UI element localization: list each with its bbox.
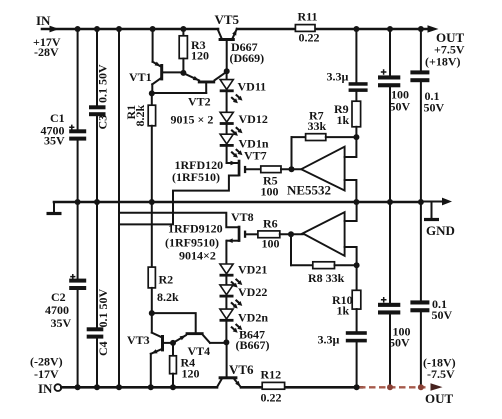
transistor VT2: [152, 72, 227, 127]
svg-text:(D669): (D669): [230, 51, 265, 65]
LED VD11: [220, 71, 266, 103]
svg-text:9014×2: 9014×2: [179, 249, 216, 263]
svg-text:VT7: VT7: [244, 149, 267, 163]
svg-text:C4: C4: [96, 341, 110, 356]
LED VD1n: [220, 125, 269, 158]
LED VD12: [220, 92, 268, 136]
svg-text:VT3: VT3: [127, 333, 150, 347]
svg-text:1k: 1k: [337, 304, 350, 318]
wire MOSFET drain bus (x=119 column): [118, 29, 120, 387]
junction dots top rail: [75, 26, 81, 32]
svg-text:35V: 35V: [44, 134, 65, 148]
wire bottom rail right (red dashed): [359, 386, 428, 388]
svg-text:50V: 50V: [424, 101, 445, 115]
junction dots bottom rail: [75, 384, 81, 390]
svg-text:R2: R2: [159, 273, 174, 287]
transistor VT8 1RFD9120: [119, 210, 258, 264]
transistor VT6 B647: [217, 328, 270, 388]
svg-text:R11: R11: [298, 10, 318, 24]
svg-text:120: 120: [182, 367, 200, 381]
svg-text:(B667): (B667): [236, 338, 270, 352]
svg-text:1RFD9120: 1RFD9120: [168, 222, 223, 236]
junction dots mid rail: [75, 199, 81, 205]
resistor R2 8.2k: [148, 202, 179, 313]
resistor R8 33k: [308, 262, 357, 285]
op-amp U1B: [291, 202, 357, 265]
svg-text:0.22: 0.22: [261, 391, 282, 405]
wire mid GND rail: [54, 201, 421, 204]
junction dots nodes: [149, 90, 155, 96]
svg-text:4700: 4700: [45, 303, 69, 317]
svg-text:GND: GND: [426, 223, 455, 238]
svg-text:-7.5V: -7.5V: [427, 367, 455, 381]
wire top rail left: [42, 28, 218, 31]
svg-text:3.3µ: 3.3µ: [318, 333, 340, 347]
svg-text:-28V: -28V: [34, 45, 59, 59]
capacitor 100u/50V bottom: [378, 202, 411, 387]
resistor R6 100: [258, 217, 303, 251]
svg-text:IN: IN: [36, 13, 51, 28]
LED VD2n: [220, 309, 269, 342]
ground left: [53, 202, 55, 212]
svg-text:VD11: VD11: [238, 80, 267, 94]
transistor VT3: [127, 313, 173, 387]
svg-text:50V: 50V: [432, 308, 453, 322]
svg-text:120: 120: [191, 49, 209, 63]
node IN top terminal: [33, 13, 61, 59]
wire bottom rail left: [61, 386, 217, 389]
svg-text:50V: 50V: [390, 100, 411, 114]
node OUT top arrow: [428, 25, 439, 32]
resistor R9 1k + capacitor 3.3u top: [327, 29, 368, 137]
resistor R4 120: [170, 343, 200, 387]
wire bottom rail mid: [241, 386, 362, 389]
LED VD22: [220, 285, 268, 309]
node IN bottom terminal: [30, 355, 63, 397]
svg-text:VT5: VT5: [215, 12, 240, 27]
capacitor C4 0.1/50V: [87, 202, 110, 387]
resistor R11 0.22: [295, 10, 319, 45]
svg-text:(1RF510): (1RF510): [172, 170, 220, 184]
svg-text:35V: 35V: [51, 316, 72, 330]
svg-text:VT6: VT6: [229, 362, 254, 377]
node OUT bottom arrow: [431, 383, 443, 390]
svg-text:OUT: OUT: [425, 391, 454, 406]
svg-text:100: 100: [262, 237, 280, 251]
node GND right terminal: [421, 201, 443, 203]
svg-text:3.3µ: 3.3µ: [327, 70, 349, 84]
resistor R10 1k + capacitor 3.3u bottom: [318, 265, 367, 387]
resistor R12 0.22: [261, 368, 285, 405]
svg-text:C3: C3: [96, 115, 110, 130]
svg-text:VT1: VT1: [129, 70, 152, 84]
svg-text:100: 100: [261, 185, 279, 199]
svg-text:50V: 50V: [389, 336, 410, 350]
transistor VT4: [152, 313, 226, 358]
capacitor 0.1/50V bottom: [410, 202, 452, 387]
resistor R7 33k: [306, 109, 357, 141]
svg-text:VT2: VT2: [188, 95, 211, 109]
svg-text:VD22: VD22: [238, 285, 267, 299]
svg-text:R6: R6: [263, 217, 278, 231]
transistor VT5 D667: [215, 12, 265, 71]
svg-text:VD21: VD21: [238, 263, 267, 277]
capacitor C1: [41, 29, 87, 202]
svg-text:8.2k: 8.2k: [133, 105, 147, 127]
svg-text:R12: R12: [261, 368, 282, 382]
svg-text:VT8: VT8: [231, 210, 254, 224]
capacitor 100u/50V top: [378, 29, 411, 202]
svg-text:VD12: VD12: [239, 112, 268, 126]
svg-text:(+18V): (+18V): [425, 55, 461, 69]
svg-text:VD2n: VD2n: [238, 311, 268, 325]
svg-text:1k: 1k: [337, 113, 350, 127]
capacitor C2: [45, 202, 86, 387]
svg-text:0.1 50V: 0.1 50V: [96, 64, 110, 103]
resistor R5 100: [261, 166, 302, 199]
op-amp U1A NE5532: [287, 137, 356, 202]
capacitor C3 0.1/50V: [89, 29, 110, 202]
svg-text:0.22: 0.22: [299, 31, 320, 45]
transistor VT1: [129, 29, 183, 93]
capacitor 0.1/50V top: [410, 29, 444, 202]
wire top rail right: [237, 28, 429, 31]
svg-text:R8 33k: R8 33k: [308, 271, 345, 285]
svg-text:33k: 33k: [308, 119, 327, 133]
transistor VT7 1RFD120: [119, 147, 267, 225]
svg-text:C2: C2: [51, 290, 66, 304]
LED VD21: [220, 263, 268, 288]
svg-text:(1RF9510): (1RF9510): [165, 236, 219, 250]
svg-text:NE5532: NE5532: [287, 183, 331, 198]
svg-text:IN: IN: [38, 381, 53, 396]
svg-text:0.1 50V: 0.1 50V: [96, 289, 110, 328]
svg-text:8.2k: 8.2k: [157, 290, 179, 304]
svg-text:-17V: -17V: [34, 367, 59, 381]
resistor R3 120: [179, 29, 209, 73]
svg-text:9015 × 2: 9015 × 2: [171, 113, 214, 127]
resistor R1 8.2k: [124, 93, 156, 202]
